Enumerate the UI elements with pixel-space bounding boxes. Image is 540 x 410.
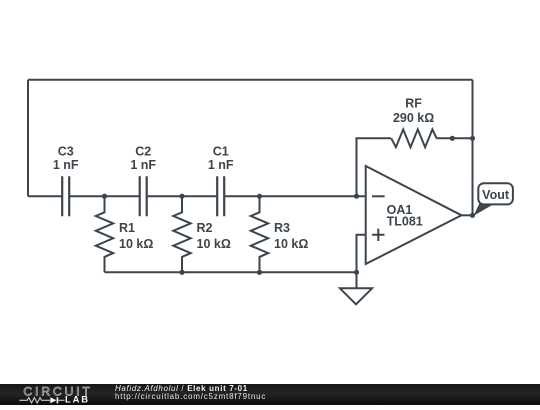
capacitor C1: [208, 144, 234, 216]
node junction ground: [354, 270, 359, 275]
wire left rail: [27, 80, 29, 196]
svg-text:290 kΩ: 290 kΩ: [393, 111, 434, 125]
svg-text:R3: R3: [274, 221, 290, 235]
svg-text:10 kΩ: 10 kΩ: [197, 237, 231, 251]
wire op-amp plus input: [357, 235, 366, 272]
capacitor C3: [53, 144, 79, 216]
svg-text:C3: C3: [58, 144, 74, 158]
wire main line segment 4: [224, 195, 366, 197]
resistor R3: [251, 196, 309, 272]
svg-text:LAB: LAB: [65, 394, 90, 405]
CircuitLab logo: [0, 384, 110, 405]
node junction R2 top: [179, 194, 184, 199]
svg-text:Vout: Vout: [482, 188, 510, 202]
svg-text:1 nF: 1 nF: [53, 158, 79, 172]
op-amp OA1: [366, 166, 462, 264]
resistor R2: [173, 196, 231, 272]
svg-text:10 kΩ: 10 kΩ: [274, 237, 308, 251]
node Vout junction: [470, 213, 475, 218]
resistor RF: [391, 97, 436, 148]
ground: [340, 272, 372, 304]
svg-text:1 nF: 1 nF: [208, 158, 234, 172]
wire feedback to RF: [357, 138, 392, 196]
wire top rail: [28, 79, 473, 81]
wire bottom rail: [105, 271, 357, 273]
svg-text:R1: R1: [119, 221, 135, 235]
node junction RF right: [450, 136, 455, 141]
wire op-amp output: [462, 214, 473, 216]
svg-text:10 kΩ: 10 kΩ: [119, 237, 153, 251]
credit line 1: [115, 385, 248, 393]
credit line 2: [115, 393, 266, 401]
footer bar: [0, 384, 540, 405]
node junction R2 bottom: [179, 270, 184, 275]
svg-text:1 nF: 1 nF: [130, 158, 156, 172]
svg-text:TL081: TL081: [387, 214, 423, 228]
node junction R1 top: [102, 194, 107, 199]
wire main line segment 3: [147, 195, 218, 197]
wire main line segment 2: [69, 195, 140, 197]
resistor R1: [96, 196, 154, 272]
svg-text:R2: R2: [197, 221, 213, 235]
node junction R3 bottom: [257, 270, 262, 275]
node Vout flag: [474, 183, 513, 216]
svg-text:C2: C2: [135, 144, 151, 158]
svg-text:C1: C1: [213, 144, 229, 158]
svg-text:RF: RF: [405, 97, 422, 111]
node junction R3 top: [257, 194, 262, 199]
node junction minus input: [354, 194, 359, 199]
capacitor C2: [130, 144, 156, 216]
wire right rail: [472, 80, 474, 216]
wire main line segment 1: [28, 195, 62, 197]
node junction right rail RF: [470, 136, 475, 141]
wire RF to right rail: [436, 137, 472, 139]
